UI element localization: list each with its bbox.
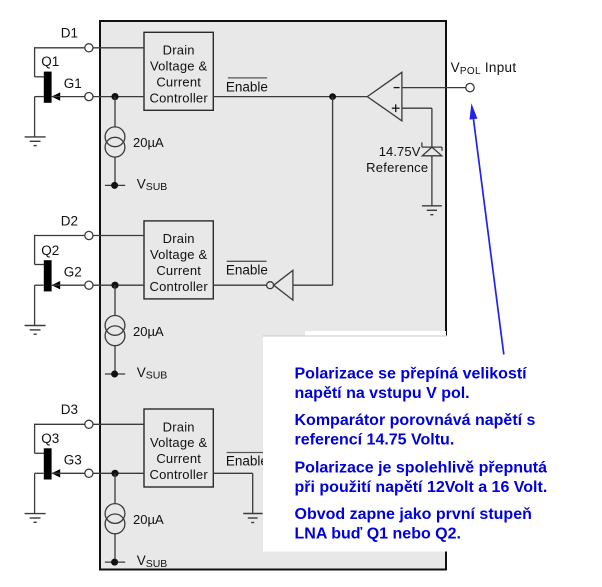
pin D3 terminal [85, 420, 93, 428]
ground symbol GND Q3 source [25, 514, 46, 523]
svg-text:Q2: Q2 [41, 243, 59, 258]
transistor Q1 (FET) [44, 72, 60, 103]
pin G1 terminal [85, 93, 93, 101]
node VSUB1 [105, 182, 125, 189]
wire source of Q2 to ground [35, 285, 44, 325]
svg-text:Current: Current [156, 263, 201, 278]
junction node N1 comparator output [329, 93, 336, 100]
svg-text:Drain: Drain [163, 419, 195, 434]
current source I3 20uA [105, 504, 125, 534]
wire zener anode to ground [431, 156, 433, 206]
junction node G1/current-source [111, 93, 118, 100]
pin G2 terminal [85, 281, 93, 289]
annotation text (blue, Czech) [295, 366, 548, 543]
svg-text:G2: G2 [64, 265, 82, 280]
svg-text:G3: G3 [64, 453, 82, 468]
IC body outline U10 [100, 21, 446, 570]
svg-text:Voltage &: Voltage & [150, 59, 208, 74]
svg-text:Controller: Controller [150, 90, 209, 105]
annotation callout box (white) [263, 331, 602, 552]
svg-text:20µA: 20µA [133, 512, 164, 527]
wire comparator non-inverting input to zener reference [402, 108, 432, 147]
wire junction G1 to current source I1 [114, 97, 116, 127]
svg-text:Drain: Drain [163, 231, 195, 246]
svg-text:Voltage &: Voltage & [150, 435, 208, 450]
svg-text:referencí 14.75 Voltu.: referencí 14.75 Voltu. [295, 431, 455, 448]
controller block U3 Drain Voltage & Current Controller [144, 409, 213, 487]
blue arrow pointing to VPOL input [470, 103, 504, 354]
ground symbol GND Enable3 [243, 514, 262, 523]
ground symbol GND zener [422, 206, 442, 215]
svg-text:Current: Current [156, 451, 201, 466]
comparator U5 [367, 72, 402, 121]
label Enable3 with overline [226, 453, 268, 469]
inverter U4 [267, 270, 293, 300]
svg-text:napětí na vstupu V pol.: napětí na vstupu V pol. [295, 385, 470, 402]
current source I1 20uA [105, 127, 125, 157]
svg-text:Current: Current [156, 74, 201, 89]
pin D1 terminal [85, 44, 93, 52]
wire D2 net from transistor Q2 drain to controller U2 [35, 235, 144, 265]
svg-text:20µA: 20µA [133, 324, 164, 339]
wire current source I3 to VSUB node [114, 534, 116, 562]
svg-text:G1: G1 [64, 76, 82, 91]
pin D2 terminal [85, 231, 93, 239]
svg-text:Q1: Q1 [41, 54, 59, 69]
ground symbol GND Q1 source [25, 137, 46, 146]
wire G1 net gate of Q1 to controller U1 [52, 96, 144, 98]
svg-text:Obvod zapne jako první stupeň: Obvod zapne jako první stupeň [295, 506, 532, 523]
svg-text:Komparátor porovnává napětí s: Komparátor porovnává napětí s [295, 412, 536, 429]
transistor Q2 (FET) [44, 260, 60, 291]
svg-text:Enable: Enable [226, 454, 268, 469]
transistor Q3 (FET) [44, 448, 60, 479]
svg-text:Q3: Q3 [41, 431, 59, 446]
svg-text:Reference: Reference [366, 160, 428, 175]
svg-text:20µA: 20µA [133, 135, 164, 150]
svg-text:D3: D3 [61, 402, 78, 417]
svg-text:Controller: Controller [150, 467, 209, 482]
svg-text:D2: D2 [61, 213, 78, 228]
wire source of Q1 to ground [35, 97, 44, 137]
wire D3 net from transistor Q3 drain to controller U3 [35, 424, 144, 454]
pin VPOL input terminal [466, 83, 474, 91]
svg-text:Polarizace se přepíná velikost: Polarizace se přepíná velikostí [295, 366, 528, 383]
controller block U2 Drain Voltage & Current Controller [144, 221, 213, 299]
wire junction G3 to current source I3 [114, 473, 116, 503]
ground symbol GND Q2 source [25, 326, 46, 335]
svg-text:při použití napětí 12Volt a 16: při použití napětí 12Volt a 16 Volt. [295, 479, 548, 496]
wire Enable1 net: U1 enable to comparator output node N1 [213, 96, 367, 98]
wire G3 net gate of Q3 to controller U3 [52, 472, 144, 474]
wire comparator inverting input to VPOL pin [402, 87, 466, 89]
wire G2 net gate of Q2 to controller U2 [52, 284, 144, 286]
node VSUB3 [105, 559, 125, 566]
junction node G3/current-source [111, 470, 118, 477]
zener diode D5 14.75V reference [422, 142, 442, 155]
label Enable2 with overline [226, 261, 268, 277]
wire Enable3 net: U3 enable to ground [213, 473, 252, 513]
label Enable1 with overline [226, 78, 268, 94]
controller block U1 Drain Voltage & Current Controller [144, 32, 213, 110]
wire junction G2 to current source I2 [114, 285, 116, 315]
junction node G2/current-source [111, 282, 118, 289]
wire Enable2 net: U2 enable to inverter U4 output bubble [213, 284, 266, 286]
wire current source I2 to VSUB node [114, 346, 116, 374]
svg-text:D1: D1 [61, 26, 78, 41]
svg-text:Enable: Enable [226, 262, 268, 277]
wire current source I1 to VSUB node [114, 157, 116, 185]
svg-text:Drain: Drain [163, 43, 195, 58]
label 14.75V Reference [366, 144, 428, 175]
wire inverter U4 input from node N1 [293, 97, 333, 286]
svg-text:14.75V: 14.75V [379, 144, 421, 159]
svg-text:Controller: Controller [150, 279, 209, 294]
current source I2 20uA [105, 316, 125, 346]
svg-text:Voltage &: Voltage & [150, 247, 208, 262]
svg-text:Enable: Enable [226, 79, 268, 94]
pin G3 terminal [85, 469, 93, 477]
svg-text:Polarizace je spolehlivě přepn: Polarizace je spolehlivě přepnutá [295, 459, 548, 476]
wire D1 net from transistor Q1 drain to controller U1 [35, 47, 144, 77]
wire source of Q3 to ground [35, 473, 44, 513]
svg-text:LNA buď Q1 nebo Q2.: LNA buď Q1 nebo Q2. [295, 525, 461, 542]
node VSUB2 [105, 371, 125, 378]
